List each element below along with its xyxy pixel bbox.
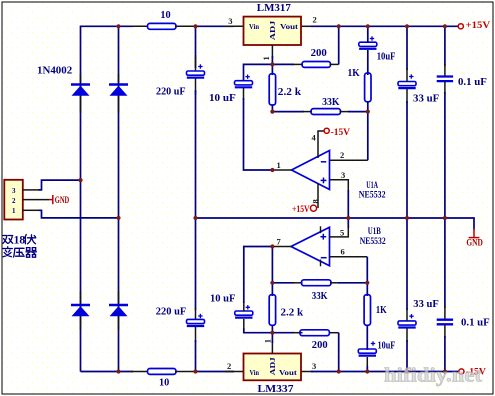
wire 10uF-BL bottom to ADJ node row [243,319,245,330]
wire 33uF bottom column [406,218,408,310]
svg-text:2: 2 [313,15,317,25]
wire resistor R-10 top leads [131,25,148,27]
svg-text:NE5532: NE5532 [360,237,386,247]
wire pin1 to AC2 node [39,210,119,218]
svg-text:GND: GND [55,195,70,205]
wire -15V output rail [311,371,460,373]
svg-text:1: 1 [261,56,271,60]
power terminal +15V (U1A pin8) [310,205,316,211]
wire U1A pin2 column [330,159,368,161]
connector pin 2 stub [23,199,49,201]
wire U1B pin6 column [330,256,368,258]
capacitor 220uF bottom [187,314,205,326]
wire 10uF-TL bottom to U1A output node [243,88,245,100]
svg-text:Vin: Vin [249,23,259,31]
wire 220uF top column [195,26,197,68]
svg-text:2: 2 [340,150,344,160]
wire diode column D1 lower [80,93,82,181]
svg-text:3: 3 [312,361,316,371]
resistor 200 bottom [300,330,330,336]
wire U1B output node down [271,247,273,297]
wire 33uF top column [406,26,408,70]
connector P1 [4,180,23,220]
wire U1B pin5 to mid rail [330,226,349,237]
svg-text:Vout: Vout [279,369,298,377]
resistor 1K top [367,50,369,75]
capacitor 220uF top [187,64,205,77]
diode D1 [71,74,90,113]
svg-text:10 uF: 10 uF [210,293,236,305]
op-amp U1A [292,151,330,190]
wire pin3 to AC1 node [39,180,81,190]
wire 10uF-TL top plate to ADJ node [244,64,273,80]
label transformer chinese line1 [3,234,36,246]
capacitor 33uF bottom [398,314,416,328]
capacitor 0.1uF top [437,77,453,82]
resistor 2.2k bottom [269,295,275,326]
svg-text:Vout: Vout [280,23,299,31]
wire LM337 ADJ pin [271,341,273,354]
wire U1A pin4 to -15V [318,131,324,158]
svg-text:3: 3 [228,16,232,26]
svg-text:2.2 k: 2.2 k [281,306,304,318]
svg-text:1: 1 [263,339,273,343]
svg-text:2.2 k: 2.2 k [278,86,302,98]
svg-text:ADJ: ADJ [269,20,277,40]
svg-text:ADJ: ADJ [269,357,277,376]
wire LM317 ADJ pin [271,45,273,58]
svg-text:10: 10 [160,9,171,21]
wire 220uF bottom column [195,218,197,310]
regulator U2 LM317 [244,17,302,45]
svg-text:1K: 1K [348,67,361,79]
svg-text:GND: GND [466,237,483,247]
regulator U3 LM337 [244,354,302,381]
svg-text:18: 18 [14,234,26,246]
svg-text:8: 8 [311,199,321,203]
wire 10uF-BL top to U1B output node [243,301,245,312]
capacitor 10uF bottom-right [358,341,376,355]
ground symbol right [473,229,475,238]
wire 0.1uF bottom column [444,218,446,308]
svg-text:LM337: LM337 [258,383,295,395]
wire U1A pin8 to +15V [317,184,319,209]
svg-text:33K: 33K [312,290,328,302]
wire 200-B right lead down to rail [330,332,339,334]
diode D3 [71,292,90,331]
svg-text:200: 200 [312,339,328,351]
svg-text:3: 3 [12,187,16,195]
wire 33K bottom right lead [330,282,340,284]
capacitor 10uF top-right [359,36,377,49]
wire diode column D3 [80,180,82,372]
svg-text:U1A: U1A [366,181,378,191]
svg-text:LM317: LM317 [257,2,291,14]
wire resistor R-10 bottom leads [131,371,148,373]
svg-text:hifidiy.net: hifidiy.net [384,365,482,387]
svg-text:Vin: Vin [250,369,260,377]
power terminal +15V output [458,24,463,29]
resistor 10 bottom [148,369,177,375]
svg-text:1: 1 [12,207,16,215]
diode D4 [109,292,128,331]
capacitor 10uF bottom-left [235,305,253,318]
svg-text:-15V: -15V [331,128,351,138]
svg-text:1K: 1K [376,304,387,316]
wire top rail to LM317 [196,25,235,27]
resistor 200 top [302,62,331,68]
svg-text:10: 10 [159,377,170,389]
svg-text:2: 2 [12,197,16,205]
wire LM337 output pin stub [301,371,313,373]
svg-text:3: 3 [341,170,345,180]
wire U1B output stub [272,246,292,248]
wire bottom rail to LM337 [196,371,235,373]
svg-text:33 uF: 33 uF [413,298,439,310]
svg-text:1: 1 [277,160,281,170]
wire LM317 input pin stub [225,25,244,27]
wire 10uF-BR bottom to -15V rail [366,357,368,368]
svg-text:+15V: +15V [466,21,491,31]
wire ADJ-B node to 200 bottom [272,332,294,334]
power terminal -15V output [459,369,464,374]
svg-text:5: 5 [340,228,344,238]
wire 200 right lead up to +15V rail [330,63,339,65]
svg-text:33K: 33K [322,96,340,108]
svg-text:1N4002: 1N4002 [37,65,73,77]
svg-text:0.1 uF: 0.1 uF [458,76,487,88]
power terminal -15V (U1A pin4) [324,128,329,133]
wire LM317 output pin stub [301,25,313,27]
op-amp U1B [291,226,330,266]
svg-text:10uF: 10uF [377,50,396,62]
wire diode column D2 top [118,26,120,218]
wire U1A output stub [272,169,292,171]
svg-text:10 uF: 10 uF [209,92,236,104]
wire LM337 input pin stub [225,371,244,373]
label transformer chinese line2 [3,247,36,257]
capacitor 33uF top [398,74,416,88]
wire feedback node row to 33K [272,111,304,113]
capacitor 10uF top-left [235,75,253,88]
wire mid ground rail [196,218,475,230]
connector pin 3 stub [23,189,39,191]
svg-text:220 uF: 220 uF [156,85,186,97]
svg-text:0.1 uF: 0.1 uF [461,316,490,328]
wire 33K right to 1K node [340,111,351,113]
wire ADJ node to 200 [272,63,294,65]
connector pin 1 stub [23,209,39,211]
svg-text:NE5532: NE5532 [359,191,386,201]
resistor 33K bottom [302,280,332,286]
resistor 2.2k top [271,64,273,75]
wire U1A pin3 to mid rail [330,180,349,192]
svg-text:2: 2 [227,361,231,371]
svg-text:220 uF: 220 uF [156,306,187,318]
wire feedback row bottom to 33K [272,282,294,284]
wire +15V output rail [311,25,459,27]
wire rail to 10uF-TR [367,26,369,43]
svg-text:+15V: +15V [292,205,310,215]
wire top rail left [81,26,134,95]
diode D2 [109,74,128,113]
ground symbol at connector [49,199,52,201]
svg-text:10uF: 10uF [378,340,396,352]
wire bottom rail left [81,371,134,373]
resistor 10 top [148,23,177,29]
wire 0.1uF top column [444,26,446,66]
svg-text:6: 6 [341,247,345,257]
svg-text:200: 200 [311,47,328,59]
svg-text:U1B: U1B [368,227,381,237]
resistor 1K bottom [366,283,368,296]
resistor 33K top [311,109,341,115]
capacitor 0.1uF bottom [437,320,453,325]
svg-text:33 uF: 33 uF [413,93,440,105]
wire diode column D4 bottom [118,218,120,372]
